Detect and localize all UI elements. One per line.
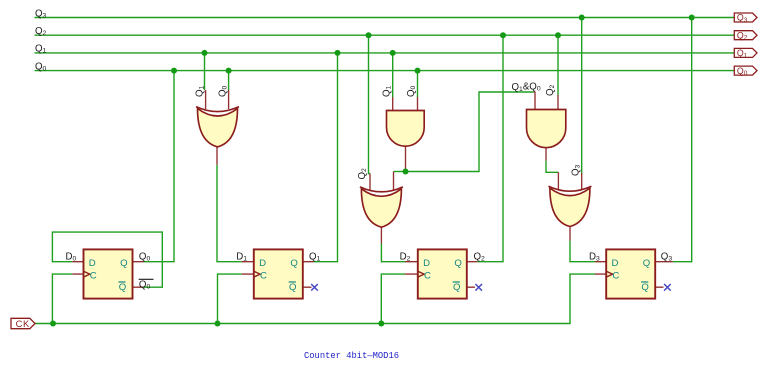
svg-text:D: D [89, 258, 96, 269]
svg-text:D3: D3 [589, 252, 600, 263]
svg-text:Q0: Q0 [737, 66, 748, 77]
svg-text:Q: Q [453, 282, 460, 293]
svg-text:Q2: Q2 [474, 252, 486, 263]
svg-text:C: C [612, 271, 619, 282]
svg-text:C: C [424, 271, 431, 282]
svg-text:D0: D0 [66, 252, 77, 263]
svg-text:Q0: Q0 [35, 61, 47, 72]
svg-text:Q: Q [641, 282, 648, 293]
svg-text:D: D [259, 258, 266, 269]
svg-text:Q3: Q3 [570, 164, 581, 176]
svg-text:D: D [423, 258, 430, 269]
svg-text:Q2: Q2 [737, 30, 748, 41]
svg-text:Q3: Q3 [737, 13, 748, 24]
svg-text:Q: Q [120, 258, 127, 269]
svg-text:Q3: Q3 [661, 252, 673, 263]
svg-text:Q: Q [119, 282, 126, 293]
svg-text:Q0: Q0 [139, 280, 151, 291]
svg-text:Q1: Q1 [381, 85, 392, 97]
svg-text:Q0: Q0 [217, 85, 228, 97]
svg-text:C: C [260, 271, 267, 282]
svg-text:Q0: Q0 [406, 85, 417, 97]
svg-text:D1: D1 [236, 252, 247, 263]
svg-text:D2: D2 [400, 252, 411, 263]
svg-text:Q1: Q1 [35, 44, 47, 55]
svg-text:Q3: Q3 [35, 8, 47, 19]
svg-text:Counter 4bit—MOD16: Counter 4bit—MOD16 [304, 351, 399, 361]
svg-text:Q1: Q1 [309, 252, 321, 263]
svg-text:Q: Q [454, 258, 461, 269]
svg-text:D: D [612, 258, 619, 269]
svg-text:Q0: Q0 [139, 252, 151, 263]
svg-text:C: C [90, 271, 97, 282]
svg-text:Q: Q [290, 258, 297, 269]
svg-text:Q1: Q1 [194, 85, 205, 97]
svg-text:Q2: Q2 [545, 84, 556, 96]
svg-text:Q2: Q2 [35, 26, 47, 37]
svg-text:Q1&Q0: Q1&Q0 [512, 81, 541, 93]
svg-text:Q1: Q1 [737, 48, 748, 59]
svg-text:Q2: Q2 [357, 168, 368, 180]
svg-text:Q: Q [289, 282, 296, 293]
svg-text:CK: CK [16, 319, 30, 329]
svg-text:Q: Q [643, 258, 650, 269]
